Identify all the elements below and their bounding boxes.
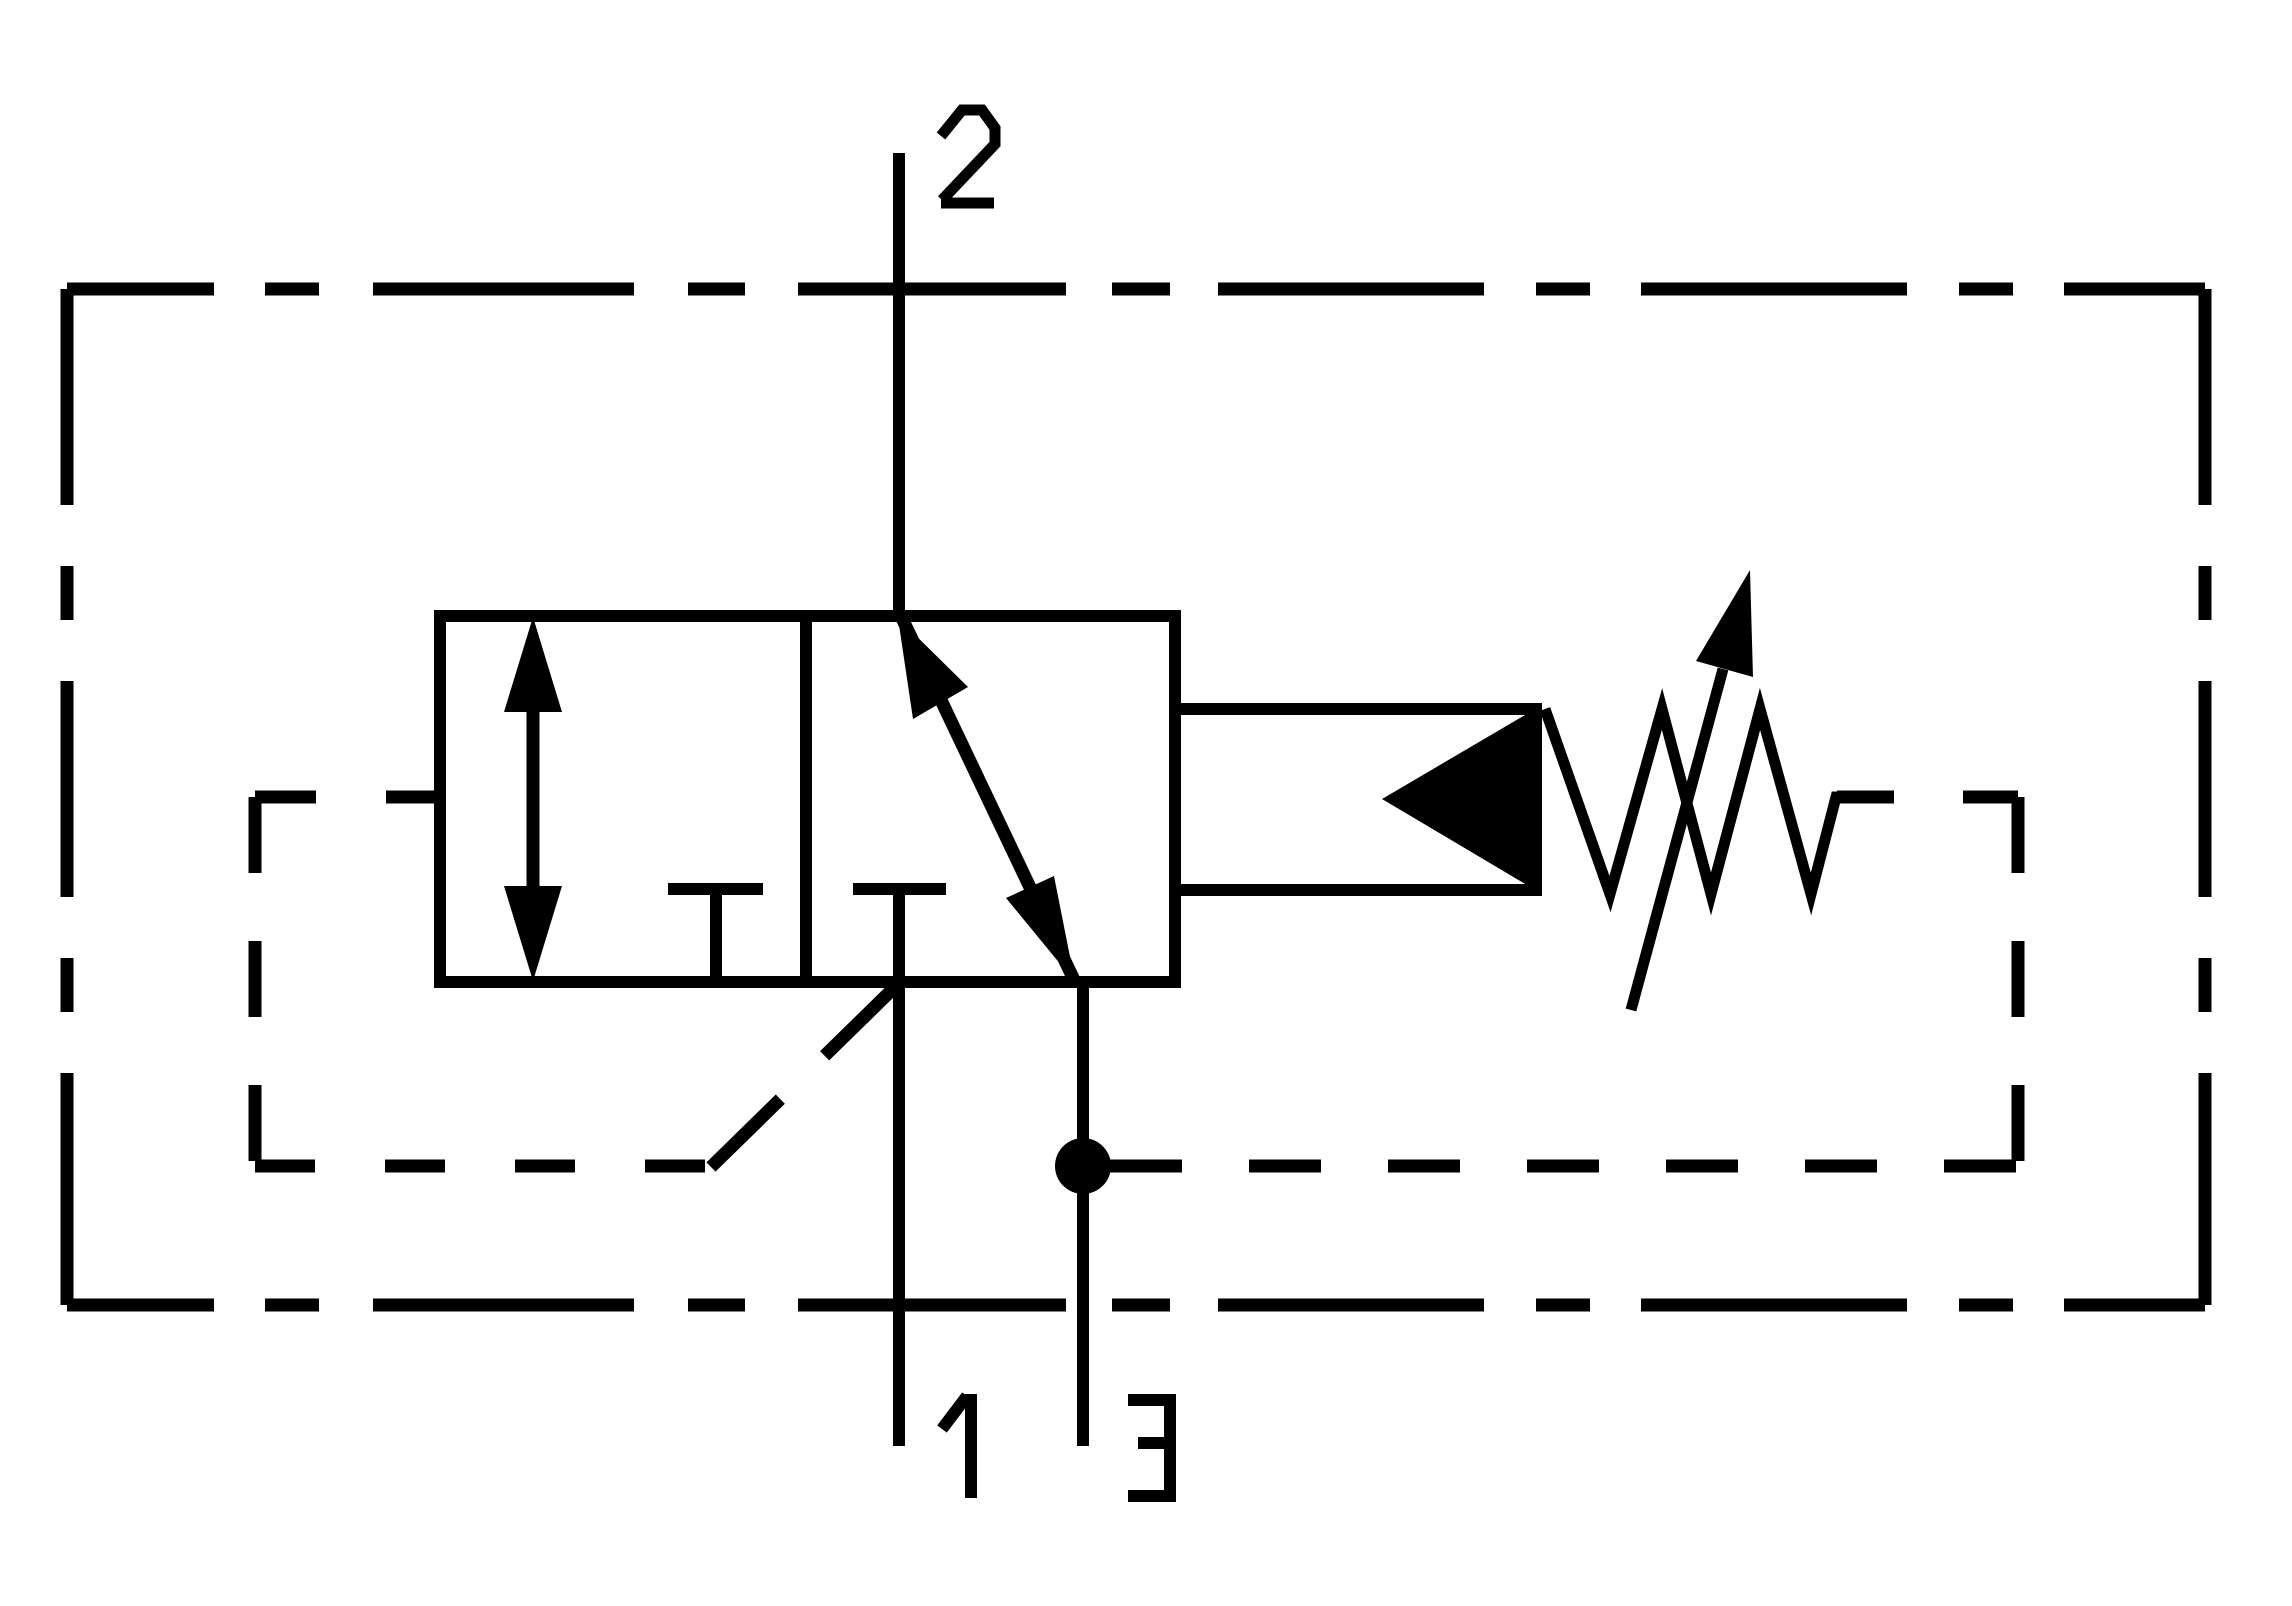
pilot dashed diagonal from port 1 xyxy=(711,983,899,1167)
pilot piston box xyxy=(1175,709,1542,890)
closed port symbol T (left cell) xyxy=(668,889,763,982)
component enclosure boundary (dash-dot outer border) xyxy=(67,289,2205,1305)
spring adjustment arrow xyxy=(1631,570,1753,1010)
label 1 xyxy=(942,1394,971,1498)
pilot circuit boundary (inner dashed rectangle) xyxy=(255,797,2018,1166)
port 3 line xyxy=(1077,982,1089,1446)
label 2 xyxy=(941,110,995,203)
port 1 line xyxy=(893,889,905,1446)
flow path arrow (right cell, diagonal double arrow) xyxy=(898,616,1075,982)
adjustable spring zigzag xyxy=(1545,709,1892,894)
port 2 line xyxy=(893,153,905,616)
closed port symbol T (right cell) xyxy=(853,883,946,895)
junction dot on port 3 xyxy=(1055,1138,1111,1194)
label 3 xyxy=(1128,1400,1170,1496)
blocked-position arrow (left cell, vertical double arrow) xyxy=(504,617,562,981)
valve body V1 (2-position envelope) xyxy=(440,616,1175,982)
pilot actuator solid triangle xyxy=(1382,705,1542,894)
